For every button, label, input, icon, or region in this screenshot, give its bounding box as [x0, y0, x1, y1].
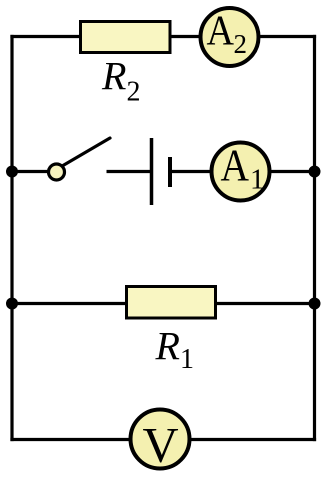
wire right vertical — [313, 35, 316, 441]
wire top — [10, 35, 316, 38]
node left middle — [6, 166, 18, 178]
resistor R1 — [127, 287, 216, 319]
ammeter A2 — [201, 8, 259, 66]
svg-text:A: A — [207, 8, 235, 54]
svg-text:A: A — [221, 139, 250, 190]
node right middle — [309, 166, 321, 178]
node right R1 row — [309, 298, 321, 310]
node left R1 row — [6, 298, 18, 310]
wire A1 to right — [240, 170, 316, 173]
battery — [152, 138, 171, 205]
wire battery to A1 — [170, 170, 240, 173]
svg-text:1: 1 — [250, 163, 265, 195]
ammeter A1 — [212, 139, 270, 200]
switch S — [49, 138, 111, 180]
voltmeter V — [131, 410, 190, 473]
wire left vertical — [10, 35, 13, 441]
wire middle left — [10, 170, 48, 173]
wire R1 row — [10, 302, 316, 305]
svg-text:2: 2 — [234, 29, 248, 59]
svg-text:V: V — [142, 416, 178, 472]
wire bottom — [10, 438, 316, 441]
resistor R2 — [81, 22, 171, 53]
wire switch to battery — [107, 170, 151, 173]
